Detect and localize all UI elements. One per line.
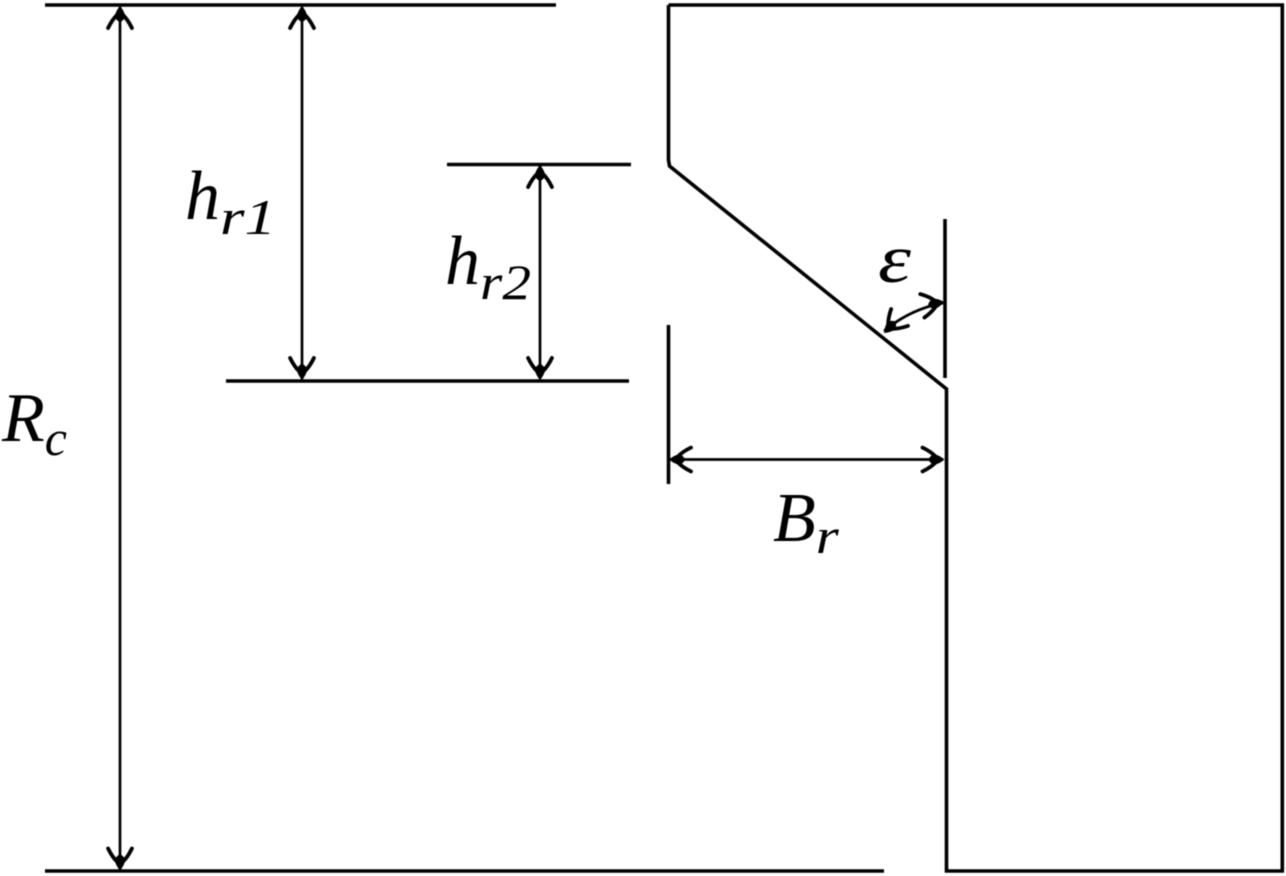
- svg-text:ε: ε: [878, 221, 912, 297]
